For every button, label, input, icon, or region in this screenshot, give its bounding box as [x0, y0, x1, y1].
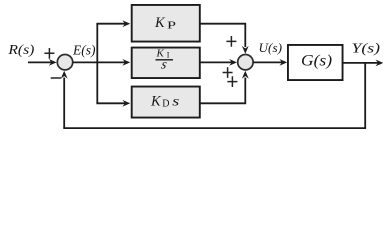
wire branch to K_D input: [96, 102, 125, 104]
block K_P (proportional gain): [132, 5, 200, 42]
svg-text:K: K: [154, 15, 166, 31]
arrowhead into G(s) block: [279, 59, 287, 66]
svg-text:E(s): E(s): [72, 43, 96, 58]
plus sign left of summing junction 2: [223, 67, 233, 78]
arrowhead into summing junction 1: [49, 59, 57, 66]
arrowhead into K_D block: [122, 100, 130, 107]
plus sign below-left of summing junction 2: [227, 76, 237, 87]
wire K_I output to summing junction 2 left: [200, 61, 232, 63]
arrowhead down into summing junction 2 top: [242, 46, 249, 54]
wire feedback: up toward summing junction 1: [63, 78, 65, 129]
arrowhead output Y(s): [376, 60, 384, 67]
svg-text:R(s): R(s): [7, 42, 35, 57]
svg-text:P: P: [167, 20, 176, 32]
wire summing junction 2 to G(s): [253, 61, 282, 63]
svg-text:U(s): U(s): [259, 40, 283, 55]
wire input R(s) to summing junction: [28, 61, 52, 63]
arrowhead into summing junction 2 left: [229, 59, 237, 66]
plus sign above-left of summing junction 2: [226, 36, 236, 47]
wire summing junction 1 to branch point and K_I input: [73, 61, 126, 63]
arrowhead up into summing junction 1 bottom: [61, 71, 68, 79]
plus sign at summing junction 1: [44, 48, 54, 59]
summing junction 2 (circle): [238, 55, 253, 70]
block G(s) plant: [288, 45, 343, 80]
summing junction 1 (circle): [57, 55, 72, 70]
wire K_P output over the top to summing junction 2: [200, 23, 246, 47]
wire branch vertical line: [96, 24, 98, 104]
arrowhead into K_P block: [122, 20, 130, 27]
block K_I/s (integral): [132, 48, 200, 79]
wire feedback: down from output tap: [364, 63, 366, 128]
minus sign at summing junction 1: [51, 77, 62, 79]
wire feedback: bottom run: [63, 127, 366, 129]
wire G(s) to output Y(s): [343, 62, 378, 64]
wire branch to K_P input: [96, 23, 125, 25]
arrowhead up into summing junction 2 bottom: [242, 71, 249, 79]
svg-text:G(s): G(s): [301, 52, 332, 69]
svg-text:s: s: [172, 94, 180, 109]
svg-text:Y(s): Y(s): [352, 40, 381, 55]
wire K_D output under the bottom to summing junction 2: [200, 78, 246, 105]
svg-text:D: D: [162, 99, 169, 110]
arrowhead into K_I block: [122, 59, 130, 66]
block K_D s (derivative): [132, 87, 200, 118]
svg-text:K: K: [150, 93, 162, 109]
